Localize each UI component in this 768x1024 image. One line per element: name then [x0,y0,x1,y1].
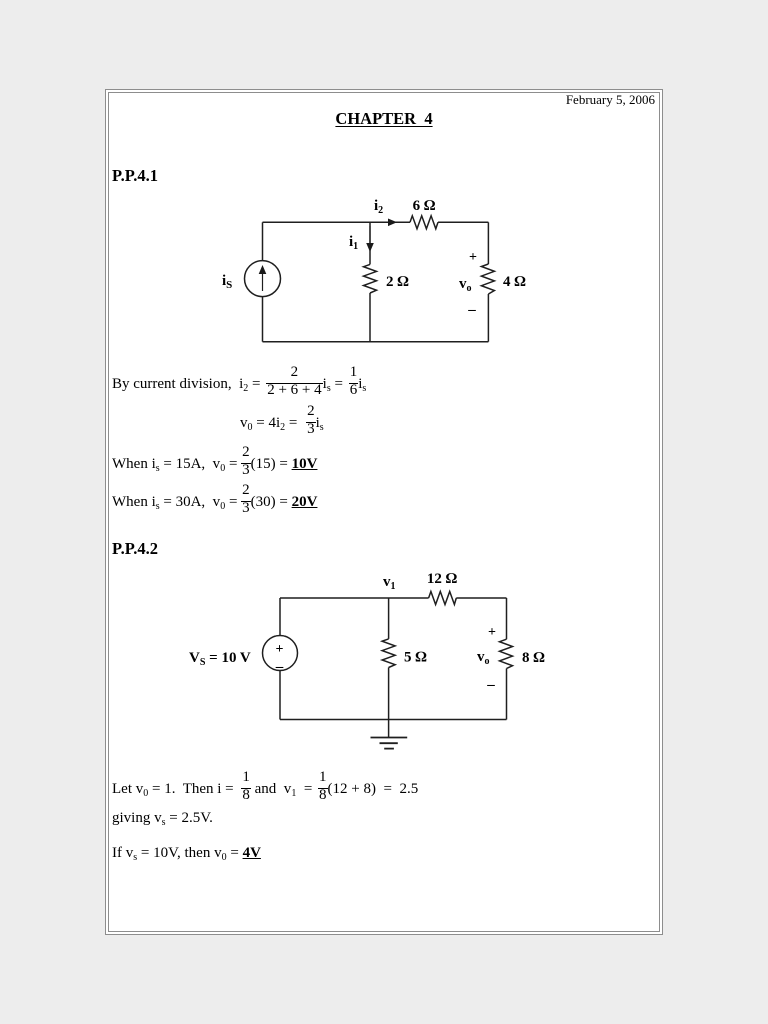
svg-text:VS = 10 V: VS = 10 V [189,650,251,668]
svg-text:vo: vo [477,649,490,667]
wire left upper [279,598,281,636]
label i2 [374,198,383,216]
wire middle lower [369,293,371,342]
title CHAPTER 4 [335,111,432,128]
resistor 4ohm [481,264,494,294]
heading P.P.4.1 [112,168,158,185]
svg-text:iS: iS [222,273,232,291]
wire middle lower [388,668,390,720]
resistor 8ohm [500,639,513,668]
label 4 ohm [503,274,526,290]
label minus vo [486,677,495,693]
wire left lower [262,297,264,342]
wire right lower [487,294,489,342]
svg-text:5 Ω: 5 Ω [404,650,427,666]
svg-text:–: – [486,677,495,693]
label 6 ohm [413,198,436,214]
line F: let v0 = 1 [112,770,418,805]
line G: giving vs [112,811,213,826]
wire middle upper [388,598,390,639]
label 5 ohm [404,650,427,666]
resistor 12ohm [429,592,457,605]
wire top-right segment [456,597,506,599]
label vo [459,276,472,294]
ground stem [388,720,390,738]
wire middle upper + node [369,222,371,264]
wire bottom [263,341,489,343]
line A: by current division [112,365,366,400]
svg-text:vo: vo [459,276,472,294]
svg-text:12 Ω: 12 Ω [427,571,458,587]
label 12 ohm [427,571,458,587]
line C: when is = 15A [112,445,317,480]
page frame [105,89,663,935]
resistor 2ohm [364,264,377,293]
svg-text:4 Ω: 4 Ω [503,274,526,290]
label 2 ohm [386,274,409,290]
resistor 6ohm [410,216,438,229]
label 8 ohm [522,650,545,666]
label plus vo [488,625,496,640]
current source IS [245,261,281,297]
svg-text:+: + [488,625,496,640]
line B: vo = 4 i2 [240,404,324,439]
svg-text:6 Ω: 6 Ω [413,198,436,214]
wire left lower [279,671,281,720]
label plus vo [469,250,477,265]
label i1 [349,234,358,252]
svg-text:8 Ω: 8 Ω [522,650,545,666]
resistor 5ohm [382,639,395,668]
arrow i2 [370,219,397,227]
arrow i1 [366,226,374,252]
svg-text:i2: i2 [374,198,383,216]
svg-text:i1: i1 [349,234,358,252]
wire right upper [487,222,489,264]
wire top-left segment [280,597,429,599]
label v1 node [383,574,396,592]
date [566,93,655,106]
svg-text:+: + [469,250,477,265]
svg-text:v1: v1 [383,574,396,592]
heading P.P.4.2 [112,541,158,558]
wire top-right segment [438,221,488,223]
wire left upper [262,222,264,260]
label vo [477,649,490,667]
svg-text:+: + [276,642,284,657]
line H: if vs = 10V [112,846,261,861]
label VS = 10 V [189,650,251,668]
svg-text:2 Ω: 2 Ω [386,274,409,290]
wire right lower [506,669,508,720]
wire top-left segment [263,221,411,223]
svg-text:–: – [467,302,476,318]
label iS [222,273,232,291]
line D: when is = 30A [112,483,317,518]
voltage source VS [263,636,298,676]
label minus vo [467,302,476,318]
wire bottom [280,719,507,721]
wire right upper [506,598,508,639]
ground symbol [371,738,408,749]
